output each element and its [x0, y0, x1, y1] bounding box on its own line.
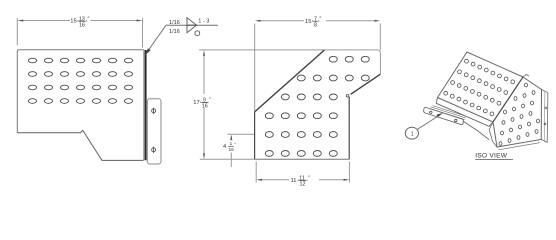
- ISO apex thickness tick: [523, 74, 529, 77]
- svg-text:16: 16: [202, 104, 208, 110]
- weld text 1/16 above: [169, 18, 209, 35]
- middle view top edge: [255, 50, 381, 74]
- ISO valley thickness edge: [489, 122, 497, 147]
- ISO right side flange: [541, 90, 548, 143]
- svg-text:15: 15: [305, 19, 311, 25]
- wire: middle view bottom dimension 11 11/12: [256, 162, 349, 183]
- balloon 1: [405, 127, 418, 139]
- svg-text:″: ″: [320, 16, 322, 22]
- dimension text 15 13/16 (left view width): [70, 16, 89, 28]
- middle view fold diagonal (left): [255, 50, 325, 112]
- wire: left view top dimension line: [17, 18, 142, 48]
- svg-text:12: 12: [300, 182, 306, 188]
- left view side flange: [147, 99, 161, 164]
- fillet weld triangle lower: [187, 25, 197, 33]
- svg-text:″: ″: [209, 98, 211, 104]
- svg-text:1/16: 1/16: [169, 29, 180, 35]
- left view hole pattern 7x4: [28, 58, 132, 103]
- wire: middle view 4 1/16 dimension: [227, 134, 254, 167]
- wire: middle view left dimension 17 9/16: [199, 50, 255, 159]
- svg-text:16: 16: [229, 147, 235, 152]
- svg-text:1: 1: [411, 131, 414, 137]
- ISO left plate front thickness edge: [436, 98, 493, 127]
- svg-text:17: 17: [193, 100, 199, 106]
- dimension text 15 7/8 (middle view width): [305, 16, 322, 28]
- middle view bottom edge: [255, 158, 350, 160]
- ISO right plate holes: [499, 83, 540, 145]
- svg-text:11: 11: [291, 178, 297, 184]
- ISO left plate holes: [444, 59, 515, 116]
- svg-text:15: 15: [70, 19, 76, 25]
- ISO bend hatch lines above flange: [429, 106, 467, 120]
- wire: left view bottom edge with notch: [17, 130, 143, 160]
- svg-text:″: ″: [234, 142, 236, 147]
- svg-text:1: 1: [230, 141, 233, 146]
- svg-text:16: 16: [79, 22, 85, 28]
- ISO right plate: [493, 77, 542, 147]
- flange hole lower: [152, 147, 156, 153]
- flange hole upper: [152, 108, 156, 114]
- middle view right diagonal cut: [351, 74, 381, 94]
- svg-text:4: 4: [223, 144, 226, 150]
- weld contour circle: [195, 31, 200, 36]
- svg-text:1 - 3: 1 - 3: [198, 18, 209, 24]
- ISO right plate bottom thickness line: [499, 143, 541, 150]
- svg-text:″: ″: [88, 16, 90, 22]
- svg-text:″: ″: [308, 176, 310, 182]
- left view bent edge (thick): [143, 50, 145, 161]
- ISO bottom flange: [424, 107, 464, 124]
- ISO valley fold line: [493, 77, 523, 122]
- svg-text:8: 8: [314, 22, 317, 28]
- middle view right lower edge: [348, 97, 350, 159]
- fillet weld triangle upper: [187, 18, 197, 26]
- bend relief hook: [346, 94, 349, 97]
- middle view left edge: [254, 112, 256, 159]
- svg-text:ISO VIEW: ISO VIEW: [475, 153, 508, 160]
- left view plate outline: [17, 50, 143, 133]
- wire: middle view top dimension: [255, 21, 381, 111]
- weld symbol leader and reference line: [146, 25, 218, 53]
- balloon leader: [418, 115, 441, 129]
- middle view hole pattern: [265, 56, 369, 156]
- ISO view left tilted plate: [438, 52, 524, 122]
- ISO flange holes: [430, 111, 457, 122]
- ISO front V edge continuation: [463, 121, 489, 139]
- svg-text:1/16: 1/16: [169, 20, 180, 26]
